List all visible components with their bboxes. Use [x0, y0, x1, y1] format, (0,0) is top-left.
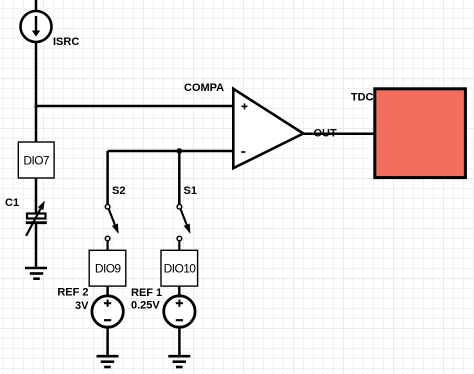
wire: junction down to switch S1 — [178, 151, 181, 205]
wire: DIO10 to REF1 — [178, 286, 181, 297]
wire: top feed into ISRC — [35, 0, 38, 12]
svg-text:COMPA: COMPA — [184, 82, 224, 94]
voltage source REF 2 — [92, 296, 123, 327]
diode box DIO9 — [89, 250, 126, 286]
capacitor C1 (variable) — [26, 201, 47, 236]
wire: REF2 to ground — [106, 327, 109, 356]
svg-text:TDC: TDC — [351, 92, 374, 104]
voltage source REF 1 — [164, 296, 195, 327]
wire: node A down to DIO7 — [35, 106, 38, 143]
diode box DIO10 — [161, 250, 198, 286]
wire: node A to comparator + input — [35, 105, 233, 108]
svg-text:0.25V: 0.25V — [131, 300, 160, 312]
svg-text:REF 1: REF 1 — [131, 287, 162, 299]
svg-text:REF 2: REF 2 — [57, 287, 88, 299]
block TDC — [375, 89, 466, 178]
svg-text:DIO7: DIO7 — [23, 154, 50, 168]
current source ISRC — [21, 11, 52, 42]
ground (below REF1) — [168, 356, 190, 367]
svg-text:DIO10: DIO10 — [164, 262, 197, 276]
wire: REF1 to ground — [178, 327, 181, 356]
wire: DIO9 to REF2 — [106, 286, 109, 297]
wire: S2 to DIO9 — [106, 240, 108, 250]
switch S2 — [105, 204, 118, 240]
switch S1 — [177, 204, 190, 240]
op-amp comparator — [233, 89, 303, 168]
wire: DIO7 to capacitor C1 — [35, 178, 38, 214]
svg-text:DIO9: DIO9 — [95, 262, 122, 276]
wire: minus input bus — [108, 150, 233, 153]
junction: S1 branch on minus bus — [176, 148, 182, 154]
svg-text:OUT: OUT — [314, 128, 338, 140]
wire: comparator output to TDC — [303, 133, 375, 136]
svg-text:ISRC: ISRC — [53, 36, 79, 48]
wire: S1 to DIO10 — [178, 240, 180, 250]
wire: ISRC down to node A — [35, 41, 38, 108]
ground (below C1) — [25, 268, 47, 279]
svg-text:3V: 3V — [75, 300, 89, 312]
wire: bus down to switch S2 — [106, 151, 109, 205]
svg-text:S1: S1 — [184, 185, 197, 197]
diode box DIO7 — [18, 142, 54, 178]
svg-text:C1: C1 — [5, 197, 19, 209]
svg-text:S2: S2 — [112, 185, 125, 197]
wire: C1 to ground — [35, 223, 38, 268]
ground (below REF2) — [97, 356, 119, 367]
